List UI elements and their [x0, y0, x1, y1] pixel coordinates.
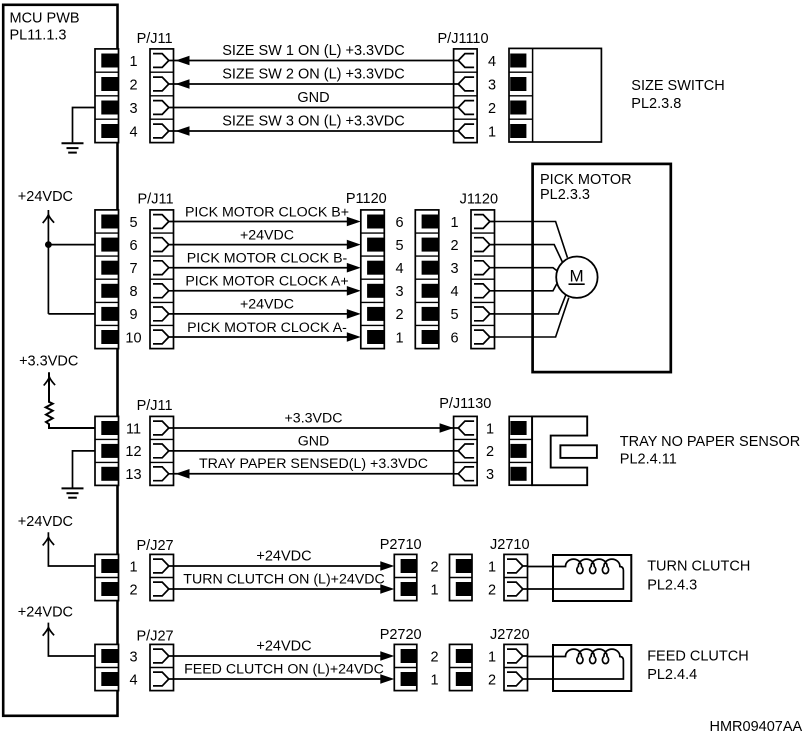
connector P2720	[394, 644, 417, 690]
svg-text:P/J1110: P/J1110	[438, 31, 489, 47]
svg-text:10: 10	[125, 330, 141, 346]
svg-text:4: 4	[129, 672, 137, 688]
svg-text:PICK MOTOR CLOCK B-: PICK MOTOR CLOCK B-	[187, 251, 348, 267]
MCU connector block pins 11-13	[95, 416, 119, 485]
TURN CLUTCH coil	[528, 559, 624, 589]
wire +24VDC to P2720	[174, 655, 390, 657]
svg-text:SIZE SW 2 ON (L) +3.3VDC: SIZE SW 2 ON (L) +3.3VDC	[222, 66, 405, 82]
wire FEED CLUTCH ON (L)+24VDC	[174, 678, 390, 680]
svg-text:2: 2	[486, 444, 494, 460]
svg-text:2: 2	[396, 307, 404, 323]
svg-text:+24VDC: +24VDC	[18, 604, 73, 620]
MCU PWB board outline	[3, 5, 117, 716]
svg-text:1: 1	[451, 215, 459, 231]
svg-text:P/J27: P/J27	[137, 538, 174, 554]
wire +24VDC to pin	[48, 623, 95, 656]
svg-text:+24VDC: +24VDC	[256, 549, 311, 565]
arrowhead into P2720 pin 1	[380, 674, 394, 684]
svg-text:2: 2	[488, 582, 496, 598]
arrowhead into P/J11	[176, 79, 190, 89]
connector P/J27 (TURN CLUTCH)	[150, 554, 174, 600]
MCU connector block (TURN CLUTCH)	[95, 554, 119, 600]
connector P/J27 (FEED CLUTCH)	[150, 644, 174, 690]
FEED CLUTCH component box	[553, 645, 631, 691]
wire P/J11-8 to P1120	[174, 290, 356, 292]
svg-text:3: 3	[451, 261, 459, 277]
svg-text:PICK MOTOR CLOCK A-: PICK MOTOR CLOCK A-	[187, 320, 347, 336]
svg-text:SIZE SW 3 ON (L) +3.3VDC: SIZE SW 3 ON (L) +3.3VDC	[222, 113, 405, 129]
arrowhead into P/J11	[176, 126, 190, 136]
connector P/J11 pins 5-10	[150, 210, 174, 349]
wire P/J11-11 to P/J1130	[174, 427, 454, 429]
svg-text:+3.3VDC: +3.3VDC	[19, 354, 78, 370]
wire J1120-5 to motor	[495, 295, 567, 314]
svg-text:1: 1	[488, 649, 496, 665]
+24VDC up arrow (FEED CLUTCH)	[43, 627, 54, 635]
arrowhead into P/J11 pin 13	[176, 469, 190, 479]
connector P2710	[394, 554, 417, 600]
svg-text:SIZE SWITCH: SIZE SWITCH	[631, 78, 724, 94]
wire pin12 to ground	[73, 451, 96, 488]
svg-text:11: 11	[126, 421, 141, 437]
svg-text:3: 3	[396, 284, 404, 300]
svg-text:+24VDC: +24VDC	[18, 189, 73, 205]
svg-text:1: 1	[129, 559, 137, 575]
connector J2720 pins	[504, 644, 528, 690]
arrowhead into P1120	[347, 332, 361, 342]
svg-text:HMR09407AA: HMR09407AA	[710, 719, 803, 735]
wire J1120-3 to motor	[495, 268, 557, 271]
wire P/J11-3 to P/J1110	[174, 107, 454, 109]
svg-text:5: 5	[129, 215, 137, 231]
svg-text:1: 1	[488, 124, 496, 140]
svg-text:P/J11: P/J11	[137, 31, 173, 47]
svg-text:SIZE SW 1 ON (L) +3.3VDC: SIZE SW 1 ON (L) +3.3VDC	[222, 43, 405, 59]
svg-text:4: 4	[451, 284, 459, 300]
resistor (pull-up)	[46, 372, 95, 428]
svg-text:1: 1	[129, 54, 137, 70]
svg-text:PL2.3.8: PL2.3.8	[631, 96, 681, 112]
svg-text:3: 3	[486, 467, 494, 483]
wire TURN CLUTCH ON (L)+24VDC	[174, 588, 390, 590]
svg-text:2: 2	[129, 582, 137, 598]
tray no paper sensor component (photo-interrupter)	[509, 416, 597, 485]
arrowhead into P/J11	[176, 56, 190, 66]
svg-text:FEED CLUTCH: FEED CLUTCH	[647, 649, 749, 665]
svg-text:3: 3	[488, 77, 496, 93]
arrowhead into P1120	[347, 263, 361, 273]
svg-text:TURN CLUTCH ON (L)+24VDC: TURN CLUTCH ON (L)+24VDC	[183, 572, 384, 588]
+24VDC up arrow (TURN CLUTCH)	[43, 537, 54, 545]
svg-text:6: 6	[396, 215, 404, 231]
svg-text:3: 3	[129, 101, 137, 117]
arrowhead into P1120	[347, 240, 361, 250]
+24VDC up arrow	[43, 215, 54, 223]
svg-text:+24VDC: +24VDC	[240, 227, 294, 243]
svg-text:MCU PWB: MCU PWB	[10, 10, 80, 26]
arrowhead into P1120	[347, 309, 361, 319]
svg-text:FEED CLUTCH ON (L)+24VDC: FEED CLUTCH ON (L)+24VDC	[184, 662, 384, 678]
wire pin3 to ground	[73, 108, 96, 143]
svg-text:P/J11: P/J11	[138, 192, 174, 208]
svg-text:2: 2	[129, 77, 137, 93]
svg-text:PICK MOTOR: PICK MOTOR	[540, 172, 632, 188]
MCU connector block pins 1-4	[95, 49, 119, 143]
svg-text:4: 4	[129, 124, 137, 140]
svg-text:2: 2	[431, 649, 439, 665]
svg-text:+24VDC: +24VDC	[18, 514, 73, 530]
+3.3VDC up arrow	[44, 377, 55, 385]
wire P/J11-4 to P/J1110	[174, 130, 454, 132]
arrowhead into P1120	[347, 286, 361, 296]
svg-text:5: 5	[396, 238, 404, 254]
MCU connector block (FEED CLUTCH)	[95, 644, 119, 690]
wire P/J11-7 to P1120	[174, 267, 356, 269]
svg-text:2: 2	[431, 559, 439, 575]
svg-text:TRAY PAPER SENSED(L) +3.3VDC: TRAY PAPER SENSED(L) +3.3VDC	[199, 456, 428, 472]
svg-text:P2720: P2720	[380, 627, 422, 643]
wire P/J11-13 to P/J1130	[174, 473, 454, 475]
svg-text:TRAY NO PAPER SENSOR: TRAY NO PAPER SENSOR	[620, 434, 801, 450]
wire P/J11-5 to P1120	[174, 221, 356, 223]
svg-text:J2710: J2710	[490, 537, 530, 553]
arrowhead into P2710 pin 1	[380, 584, 394, 594]
svg-text:P/J27: P/J27	[137, 628, 174, 644]
wire +24VDC feed to pins 6 and 9	[48, 210, 95, 314]
FEED CLUTCH coil	[528, 649, 624, 679]
svg-text:M: M	[570, 266, 584, 285]
svg-text:1: 1	[488, 559, 496, 575]
svg-text:P/J1130: P/J1130	[439, 396, 491, 412]
svg-text:GND: GND	[298, 433, 330, 449]
arrowhead into P/J1130 pin 1	[440, 423, 454, 433]
connector J2710 block	[450, 554, 473, 600]
wire J1120-2 to motor	[495, 245, 563, 263]
MCU connector block pins 5-10	[95, 210, 119, 349]
connector P/J1110 pins 4-1	[454, 49, 478, 143]
wire J1120-6 to motor	[495, 298, 569, 337]
connector J2710 pins	[504, 554, 528, 600]
connector J1120 block	[415, 210, 439, 349]
arrowhead into P2710	[380, 561, 394, 571]
connector P/J11 pins 11-13	[150, 416, 174, 485]
svg-text:J2720: J2720	[490, 627, 530, 643]
motor symbol M	[556, 257, 597, 298]
connector P1120	[361, 210, 385, 349]
wire +24VDC to pin	[48, 532, 95, 566]
svg-text:8: 8	[129, 284, 137, 300]
wire +24VDC to P2710	[174, 565, 390, 567]
svg-text:+24VDC: +24VDC	[240, 297, 294, 313]
TURN CLUTCH component box	[553, 555, 631, 601]
PICK MOTOR component box	[533, 164, 671, 372]
svg-text:+3.3VDC: +3.3VDC	[285, 410, 343, 426]
svg-text:PL2.4.3: PL2.4.3	[647, 578, 697, 594]
svg-text:TURN CLUTCH: TURN CLUTCH	[647, 559, 750, 575]
arrowhead into P2720	[380, 651, 394, 661]
svg-text:PL2.4.4: PL2.4.4	[647, 667, 697, 683]
connector J1120 pins	[471, 210, 495, 349]
wire P/J11-6 to P1120	[174, 244, 356, 246]
svg-text:7: 7	[129, 261, 137, 277]
svg-text:9: 9	[129, 307, 137, 323]
svg-text:GND: GND	[297, 90, 329, 106]
svg-text:6: 6	[451, 330, 459, 346]
svg-text:1: 1	[431, 582, 439, 598]
wire J1120-4 to motor	[495, 284, 557, 291]
connector J2720 block	[450, 644, 473, 690]
svg-text:+24VDC: +24VDC	[256, 639, 311, 655]
junction dot +24VDC node	[45, 241, 52, 248]
svg-text:PICK MOTOR CLOCK B+: PICK MOTOR CLOCK B+	[185, 204, 349, 220]
connector P/J11 pins 1-4	[150, 49, 174, 143]
connector P/J1130 pins 1-3	[454, 416, 478, 485]
svg-text:4: 4	[396, 261, 404, 277]
svg-text:6: 6	[129, 238, 137, 254]
svg-text:P1120: P1120	[346, 191, 387, 207]
svg-text:PL2.4.11: PL2.4.11	[620, 451, 677, 467]
svg-text:3: 3	[129, 649, 137, 665]
wire J1120-1 to motor	[495, 222, 568, 258]
svg-text:5: 5	[451, 307, 459, 323]
arrowhead into P1120	[347, 217, 361, 227]
svg-text:12: 12	[125, 444, 141, 460]
svg-text:P/J11: P/J11	[137, 398, 173, 414]
svg-text:2: 2	[488, 672, 496, 688]
wire P/J11-10 to P1120	[174, 336, 356, 338]
svg-text:4: 4	[488, 54, 496, 70]
svg-text:1: 1	[396, 330, 404, 346]
svg-text:2: 2	[451, 238, 459, 254]
size switch component body	[509, 48, 601, 142]
svg-text:PICK MOTOR CLOCK A+: PICK MOTOR CLOCK A+	[185, 274, 348, 290]
wire P/J11-12 to P/J1130	[174, 450, 454, 452]
svg-text:PL11.1.3: PL11.1.3	[10, 28, 67, 44]
svg-text:2: 2	[488, 101, 496, 117]
ground (tray sensor)	[62, 488, 84, 497]
wire P/J11-1 to P/J1110	[174, 60, 454, 62]
svg-text:13: 13	[125, 467, 141, 483]
wire P/J11-2 to P/J1110	[174, 83, 454, 85]
svg-text:P2710: P2710	[380, 537, 422, 553]
svg-text:1: 1	[431, 672, 439, 688]
svg-text:1: 1	[486, 421, 494, 437]
svg-text:PL2.3.3: PL2.3.3	[540, 187, 590, 203]
wire P/J11-9 to P1120	[174, 313, 356, 315]
ground (size switch)	[62, 143, 84, 152]
svg-text:J1120: J1120	[460, 192, 498, 208]
